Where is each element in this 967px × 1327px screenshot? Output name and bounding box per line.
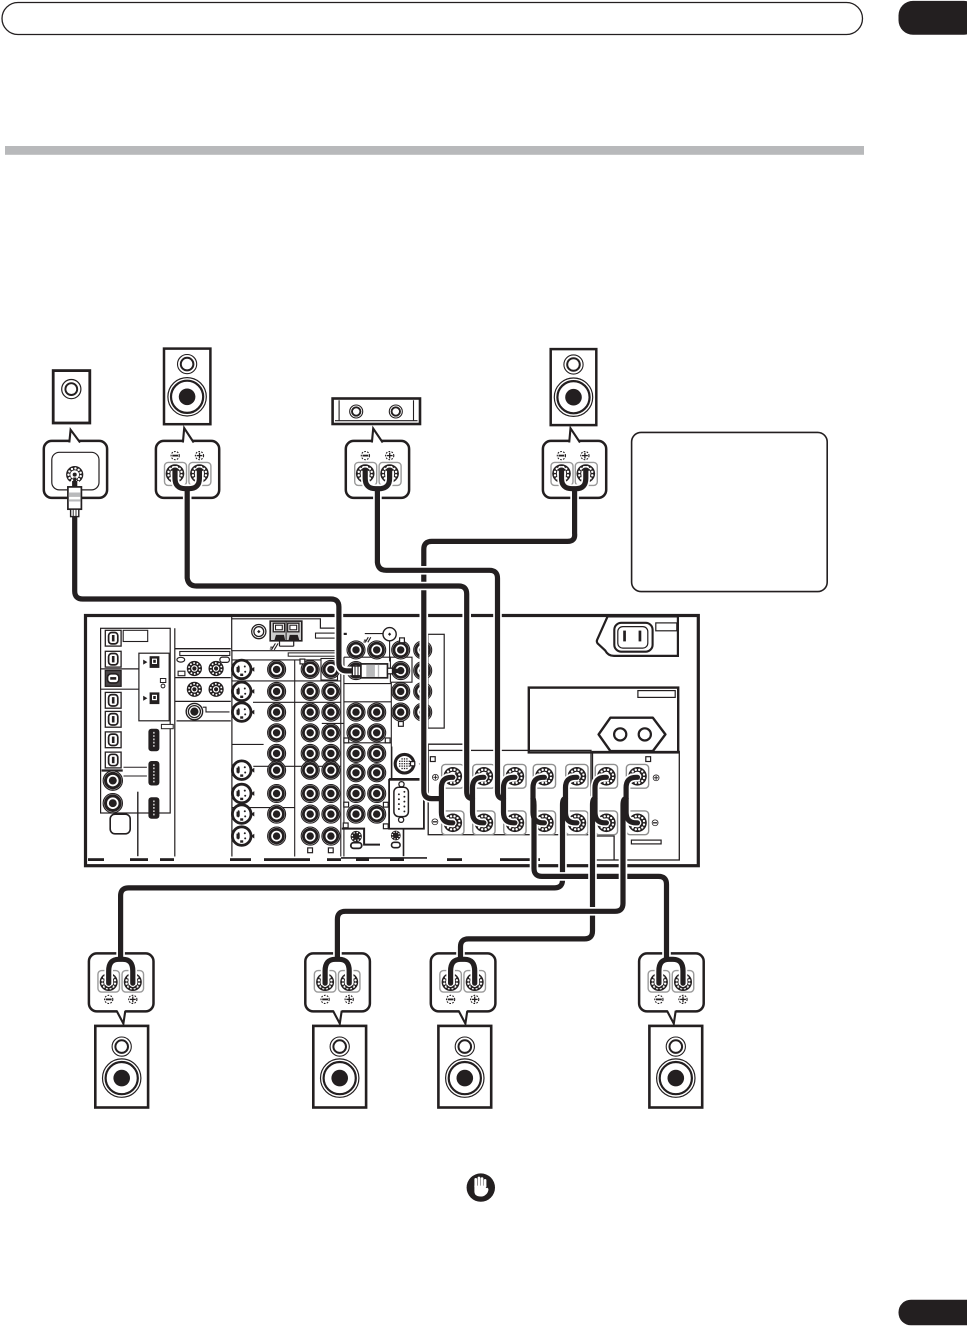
small aux jacks bottom <box>341 829 427 858</box>
small mounting squares <box>300 638 651 853</box>
speaker terminal box B <box>593 752 680 861</box>
optical jacks column <box>105 630 121 768</box>
hdmi jacks <box>148 724 173 818</box>
left analog RCA pair <box>103 771 122 813</box>
hdmi block structure <box>102 767 147 856</box>
top-right black tab <box>899 1 967 35</box>
surround-left terminal callout <box>89 953 154 1011</box>
usb block <box>139 653 169 721</box>
terminal polarity marks <box>432 774 659 825</box>
center speaker <box>333 399 420 425</box>
bottom edge ticks <box>88 858 540 861</box>
empty note box <box>632 432 828 591</box>
subwoofer terminal callout <box>44 441 107 498</box>
subwoofer speaker <box>53 371 90 423</box>
wire front-right <box>424 470 586 827</box>
speaker binding posts <box>442 764 649 834</box>
panel divider lines <box>233 617 392 857</box>
component video box <box>428 634 444 728</box>
surround back right speaker <box>649 1026 702 1108</box>
header outline bar <box>2 3 863 35</box>
surround back left speaker <box>438 1026 491 1108</box>
rca jack grid <box>268 641 432 845</box>
rs232 d-sub <box>394 782 409 823</box>
tuner label <box>316 633 338 638</box>
FM antenna jack <box>252 625 266 639</box>
tuner block <box>232 617 341 857</box>
surround-right terminal callout <box>431 953 496 1011</box>
DIN multi-pin jack <box>395 754 420 773</box>
front-left terminal callout <box>156 441 219 498</box>
surround left speaker <box>95 1026 148 1108</box>
subwoofer plug at receiver <box>352 664 400 678</box>
phono block <box>175 628 231 856</box>
wire subwoofer <box>75 481 354 671</box>
subwoofer plug at sub callout <box>68 478 82 517</box>
s-video jacks <box>232 660 254 845</box>
AV receiver rear panel outline <box>86 616 699 866</box>
phono jacks <box>187 661 224 697</box>
subwoofer RCA jack <box>66 466 83 483</box>
AC inlet <box>597 616 678 656</box>
AC outlet box <box>529 688 678 753</box>
front-right terminal callout <box>543 441 606 498</box>
blank rounded connector <box>110 814 130 834</box>
surround-back-right terminal callout <box>639 953 704 1011</box>
front left speaker <box>164 349 210 425</box>
AM antenna terminals <box>270 621 302 650</box>
DIN and D-sub boxes <box>389 747 424 857</box>
post wire cups <box>171 468 590 470</box>
ground terminal <box>186 703 229 719</box>
FM 75ohm jack <box>344 628 397 662</box>
center terminal callout <box>346 441 409 498</box>
callout pointers <box>117 1009 676 1024</box>
bottom-right black tab <box>899 1300 967 1326</box>
wire surround-back-right (post col4) <box>533 772 687 988</box>
gray section divider bar <box>5 146 864 155</box>
wire surround-right (post col6) <box>447 772 611 988</box>
wire surround-left (post col5) <box>105 772 582 988</box>
wire surround-back-left (post col7) <box>321 772 642 988</box>
surround-back-left terminal callout <box>305 953 370 1011</box>
digital audio block <box>101 628 171 813</box>
jack plates <box>321 657 412 682</box>
speaker terminal box A <box>428 744 591 835</box>
caution hand icon <box>467 1173 495 1201</box>
wire center <box>365 470 519 827</box>
front right speaker <box>551 349 597 425</box>
wire front-left <box>175 470 489 827</box>
surround right speaker <box>313 1026 366 1108</box>
